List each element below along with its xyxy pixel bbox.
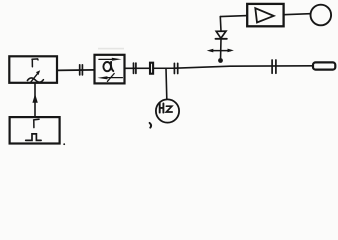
detector diode VD1	[216, 17, 227, 39]
pulse generator G2 (box with pulse symbol)	[10, 117, 60, 143]
faint print smudge above attenuator	[98, 48, 124, 50]
connector X3 (ticks)	[174, 63, 177, 73]
indicator P2 (circle meter)	[311, 5, 332, 26]
connector X1 (coaxial joint ticks)	[80, 65, 83, 75]
stray mark near frequency meter	[150, 123, 152, 128]
wire down to frequency meter	[165, 68, 168, 98]
amplifier U1 (box with triangle)	[247, 4, 283, 26]
connector X4 (ticks)	[272, 60, 276, 73]
wire diode to amplifier	[220, 16, 247, 17]
generator G1 (tunable sine generator box)	[9, 56, 57, 83]
speck near pulse box corner	[63, 143, 65, 145]
wire pulse generator to generator (modulation, arrow up)	[32, 83, 37, 117]
inline section element (small rectangle on line)	[150, 63, 153, 74]
matched load R1 (rounded rectangle termination)	[313, 62, 335, 69]
main measuring line (wire toward load)	[125, 66, 312, 69]
probe travel arrow (double-headed)	[207, 49, 234, 53]
wire generator to attenuator	[57, 69, 95, 72]
connector X2 (ticks)	[134, 63, 136, 73]
frequency meter P1 (Hz circle)	[156, 99, 179, 122]
wire amplifier to indicator	[284, 14, 311, 15]
probe tip junction (dot above line)	[218, 58, 223, 63]
probe wire up to diode	[220, 39, 223, 61]
attenuator A1 (box with alpha and arrows)	[95, 55, 125, 84]
